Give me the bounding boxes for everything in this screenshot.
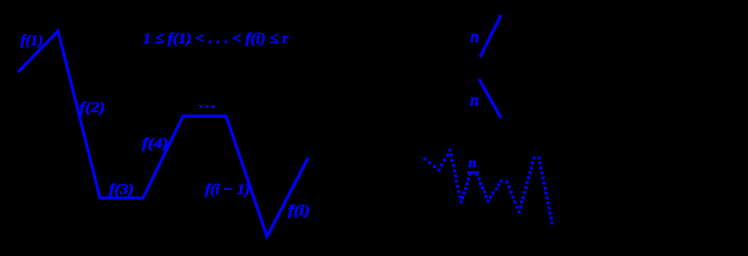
svg-text:1 ≤ f(1) < . . . < f(i) ≤ r: 1 ≤ f(1) < . . . < f(i) ≤ r [143,31,289,47]
svg-text:f(i − 1): f(i − 1) [205,182,250,198]
legend: downward slope segment [479,79,501,118]
width marker bar on dotted peak [467,171,479,174]
svg-text:f(2): f(2) [80,100,106,116]
ellipsis dots above plateau [200,105,203,108]
svg-text:n: n [470,90,479,109]
svg-text:f(3): f(3) [109,182,134,198]
svg-text:n: n [470,27,479,46]
svg-text:f(1): f(1) [21,33,44,49]
svg-text:f(i): f(i) [288,203,310,219]
dotted zigzag curve [424,149,554,225]
legend: upward slope segment [480,15,501,57]
solid piecewise-linear curve f [18,31,308,237]
svg-text:f(4): f(4) [142,136,169,152]
svg-text:n: n [468,156,477,171]
